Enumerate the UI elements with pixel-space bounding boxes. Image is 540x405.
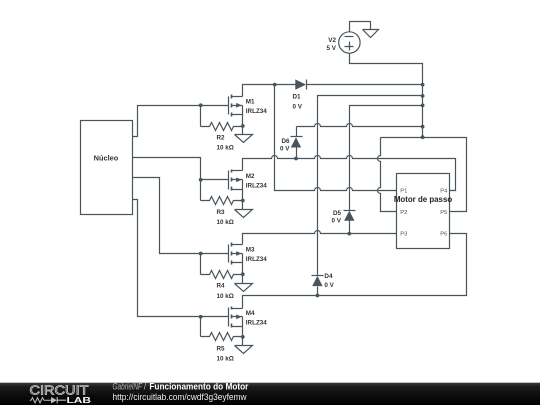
node D4 anode [316,294,320,298]
svg-text:P6: P6 [440,232,447,238]
wire D6 top line to bus [297,124,423,127]
svg-text:D6: D6 [281,138,290,145]
wire P5 stub [450,138,467,212]
svg-text:P5: P5 [440,210,447,216]
node M1 gate junction [199,103,203,107]
wire D1 cathode to bus [307,84,423,86]
svg-text:IRLZ34: IRLZ34 [246,320,267,327]
wire net Núcleo port2 to M2 gate [133,158,229,201]
block Motor de passo [394,174,452,249]
svg-text:P1: P1 [400,188,407,194]
svg-text:R5: R5 [217,345,226,352]
wire gate branch to R5 [200,317,202,337]
wire net Núcleo port3 to M3 gate [133,178,229,254]
logo diode [51,397,57,403]
wire M3 drain to P3 [243,231,397,245]
svg-text:IRLZ34: IRLZ34 [246,256,267,263]
diode D6 [280,127,302,159]
node M3 source/R4 [241,272,245,276]
svg-text:P3: P3 [400,232,407,238]
transistor M3 [229,243,268,275]
svg-text:LAB: LAB [67,395,92,405]
block Núcleo [81,121,133,215]
svg-text:P4: P4 [440,188,448,194]
svg-text:0 V: 0 V [324,282,334,289]
transistor M1 [229,95,268,127]
ground M3 [235,275,253,292]
logo resistor zigzag [30,398,51,403]
node M2 source/R3 [241,199,245,203]
svg-text:M2: M2 [246,173,255,180]
svg-text:0 V: 0 V [280,146,290,153]
svg-text:R2: R2 [217,134,226,141]
resistor R2 [201,123,243,152]
node M3 gate junction [199,252,203,256]
svg-text:R3: R3 [217,209,226,216]
node M1 source/R2 [241,124,245,128]
svg-text:http://circuitlab.com/cwdf3g3e: http://circuitlab.com/cwdf3g3eyfemw [113,392,248,402]
wire M2 drain to P4 [243,156,456,191]
svg-text:R4: R4 [217,283,226,290]
svg-text:10 kΩ: 10 kΩ [217,293,234,300]
svg-text:Funcionamento do Motor: Funcionamento do Motor [149,381,249,391]
transistor M2 [229,170,268,201]
resistor R3 [201,197,243,227]
wire gate branch to R4 [200,254,202,275]
node M2 gate junction [199,178,203,182]
ground M2 [235,201,253,218]
wire V2 top to ground [350,22,371,32]
voltage source V2 [327,32,361,53]
transistor M4 [229,307,268,337]
resistor R5 [201,333,243,363]
diode D5 [332,210,356,233]
wire P2/P5 supply line [378,138,465,212]
node D1 anode branch [273,83,277,87]
svg-text:0 V: 0 V [293,104,303,111]
svg-text:M4: M4 [246,310,255,317]
diode D4 [312,273,335,295]
svg-text:M1: M1 [246,99,255,106]
svg-text:0 V: 0 V [332,218,342,225]
svg-text:IRLZ34: IRLZ34 [246,108,267,115]
svg-text:P2: P2 [400,210,407,216]
svg-text:IRLZ34: IRLZ34 [246,183,267,190]
svg-text:10 kΩ: 10 kΩ [217,219,234,226]
diode D1 [293,79,307,110]
wire bus line y105.4 and D5 column [350,106,423,211]
wire bus line y95.9 and D4 column [318,96,423,276]
svg-text:D5: D5 [333,210,342,217]
ground M1 [235,127,253,143]
svg-text:5 V: 5 V [327,45,337,52]
svg-text:D4: D4 [324,273,333,280]
svg-text:D1: D1 [293,94,302,101]
svg-text:10 kΩ: 10 kΩ [217,355,234,362]
svg-text:M3: M3 [246,247,255,254]
wire V2 bottom to right bus [350,54,423,138]
node D5 anode [347,232,351,236]
ground M4 [235,337,253,354]
svg-text:GabrielNF: GabrielNF [113,381,143,391]
ground V2 [363,30,379,38]
node M4 gate junction [199,315,203,319]
svg-text:Motor de passo: Motor de passo [394,195,452,204]
svg-text:Núcleo: Núcleo [94,154,119,163]
svg-text:10 kΩ: 10 kΩ [217,145,234,152]
resistor R4 [201,271,243,300]
svg-text:V2: V2 [328,37,336,44]
node D6 anode [294,157,298,161]
wire net Núcleo port1 to M1 gate [133,106,229,137]
wire M1 drain / D1 anode line [243,85,296,97]
wire M4 drain to P6 [243,234,467,309]
wire net Núcleo port4 to M4 gate [133,200,229,317]
node bus junctions [421,83,425,87]
wire gate branch to R2 [200,106,202,127]
node M4 source/R5 [241,335,245,339]
wire D1-anode branch down to P1 [275,85,397,191]
